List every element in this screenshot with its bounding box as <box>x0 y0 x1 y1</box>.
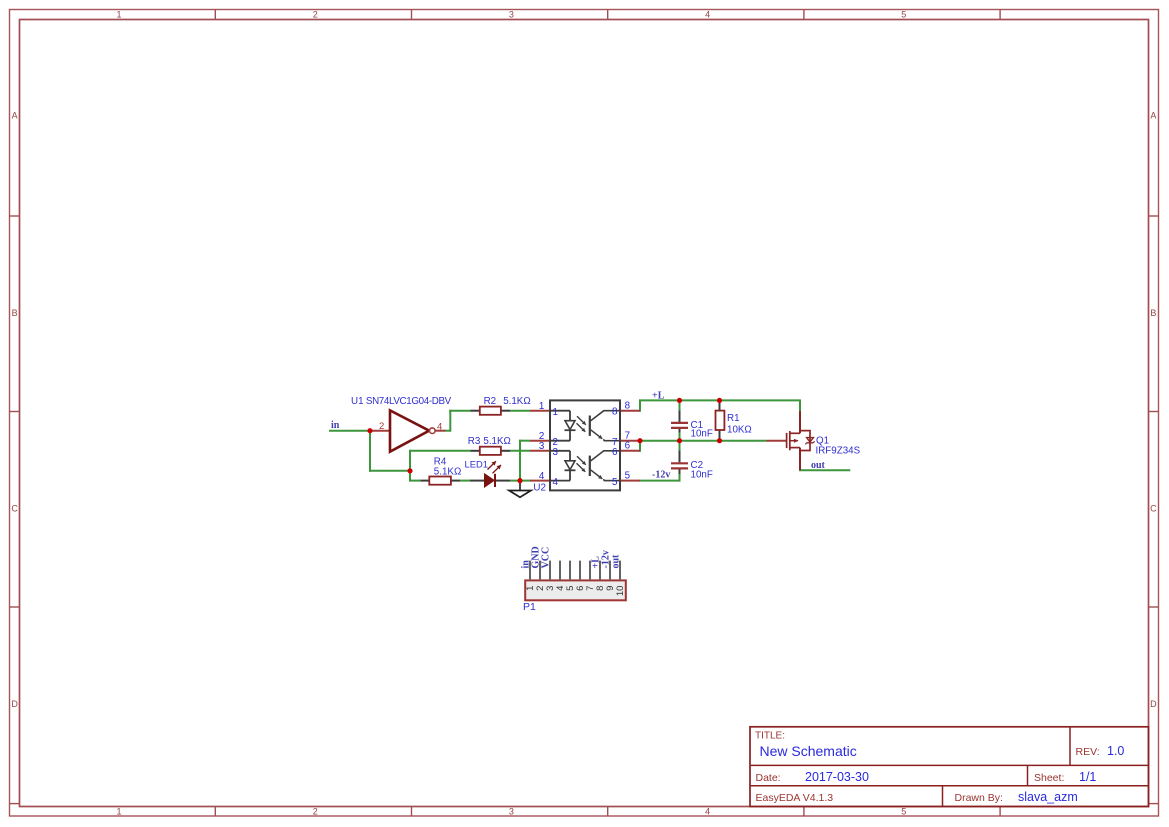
svg-text:10nF: 10nF <box>691 429 713 440</box>
svg-text:A: A <box>12 111 18 121</box>
svg-text:P1: P1 <box>523 601 536 613</box>
svg-text:6: 6 <box>612 447 618 458</box>
svg-text:5: 5 <box>901 807 906 817</box>
svg-text:LED1: LED1 <box>465 459 488 470</box>
svg-text:REV:: REV: <box>1076 746 1100 758</box>
svg-text:out: out <box>811 460 826 471</box>
svg-text:10: 10 <box>615 586 626 597</box>
svg-text:1: 1 <box>539 401 544 412</box>
svg-text:VCC: VCC <box>541 547 552 569</box>
svg-text:6: 6 <box>625 441 631 452</box>
svg-text:U2: U2 <box>533 483 546 494</box>
svg-text:out: out <box>611 554 622 569</box>
svg-text:in: in <box>331 420 340 431</box>
svg-text:5: 5 <box>612 477 618 488</box>
svg-text:5.1KΩ: 5.1KΩ <box>503 396 530 407</box>
svg-text:5.1KΩ: 5.1KΩ <box>434 466 461 477</box>
svg-text:R2: R2 <box>484 396 497 407</box>
svg-text:1: 1 <box>553 407 558 418</box>
svg-text:4: 4 <box>705 807 710 817</box>
svg-text:1/1: 1/1 <box>1079 770 1096 784</box>
svg-text:SN74LVC1G04-DBV: SN74LVC1G04-DBV <box>366 396 452 407</box>
svg-text:Sheet:: Sheet: <box>1034 772 1064 784</box>
svg-text:+L: +L <box>652 391 665 402</box>
svg-text:3: 3 <box>509 10 514 20</box>
svg-text:5.1KΩ: 5.1KΩ <box>483 436 510 447</box>
svg-text:5: 5 <box>625 471 631 482</box>
svg-text:8: 8 <box>625 401 631 412</box>
svg-text:B: B <box>12 308 18 318</box>
svg-text:2: 2 <box>313 807 318 817</box>
svg-text:2: 2 <box>313 10 318 20</box>
svg-text:5: 5 <box>901 10 906 20</box>
svg-text:-12v: -12v <box>652 470 670 481</box>
svg-text:C: C <box>11 504 18 514</box>
svg-text:TITLE:: TITLE: <box>755 731 785 742</box>
svg-text:R1: R1 <box>727 413 740 424</box>
svg-text:1.0: 1.0 <box>1107 744 1124 758</box>
svg-text:10KΩ: 10KΩ <box>727 425 752 436</box>
svg-text:C: C <box>1150 504 1157 514</box>
svg-text:slava_azm: slava_azm <box>1018 790 1078 804</box>
svg-text:4: 4 <box>539 471 545 482</box>
svg-text:IRF9Z34S: IRF9Z34S <box>816 446 861 457</box>
svg-text:D: D <box>11 699 18 709</box>
svg-text:D: D <box>1150 699 1157 709</box>
svg-text:2017-03-30: 2017-03-30 <box>805 770 869 784</box>
svg-text:4: 4 <box>437 422 442 433</box>
svg-text:1: 1 <box>116 807 121 817</box>
svg-text:4: 4 <box>705 10 710 20</box>
svg-text:EasyEDA V4.1.3: EasyEDA V4.1.3 <box>756 792 834 804</box>
svg-text:Drawn By:: Drawn By: <box>955 792 1003 804</box>
svg-text:8: 8 <box>612 407 618 418</box>
svg-text:B: B <box>1150 308 1156 318</box>
svg-text:Date:: Date: <box>756 772 781 784</box>
svg-text:New Schematic: New Schematic <box>760 743 857 759</box>
svg-text:3: 3 <box>539 441 545 452</box>
svg-text:3: 3 <box>509 807 514 817</box>
svg-text:2: 2 <box>379 421 384 432</box>
svg-text:1: 1 <box>116 10 121 20</box>
svg-text:4: 4 <box>553 477 559 488</box>
svg-text:R3: R3 <box>468 436 481 447</box>
svg-text:3: 3 <box>553 447 559 458</box>
svg-text:A: A <box>1150 111 1156 121</box>
svg-text:U1: U1 <box>351 396 364 407</box>
svg-text:10nF: 10nF <box>691 470 713 481</box>
